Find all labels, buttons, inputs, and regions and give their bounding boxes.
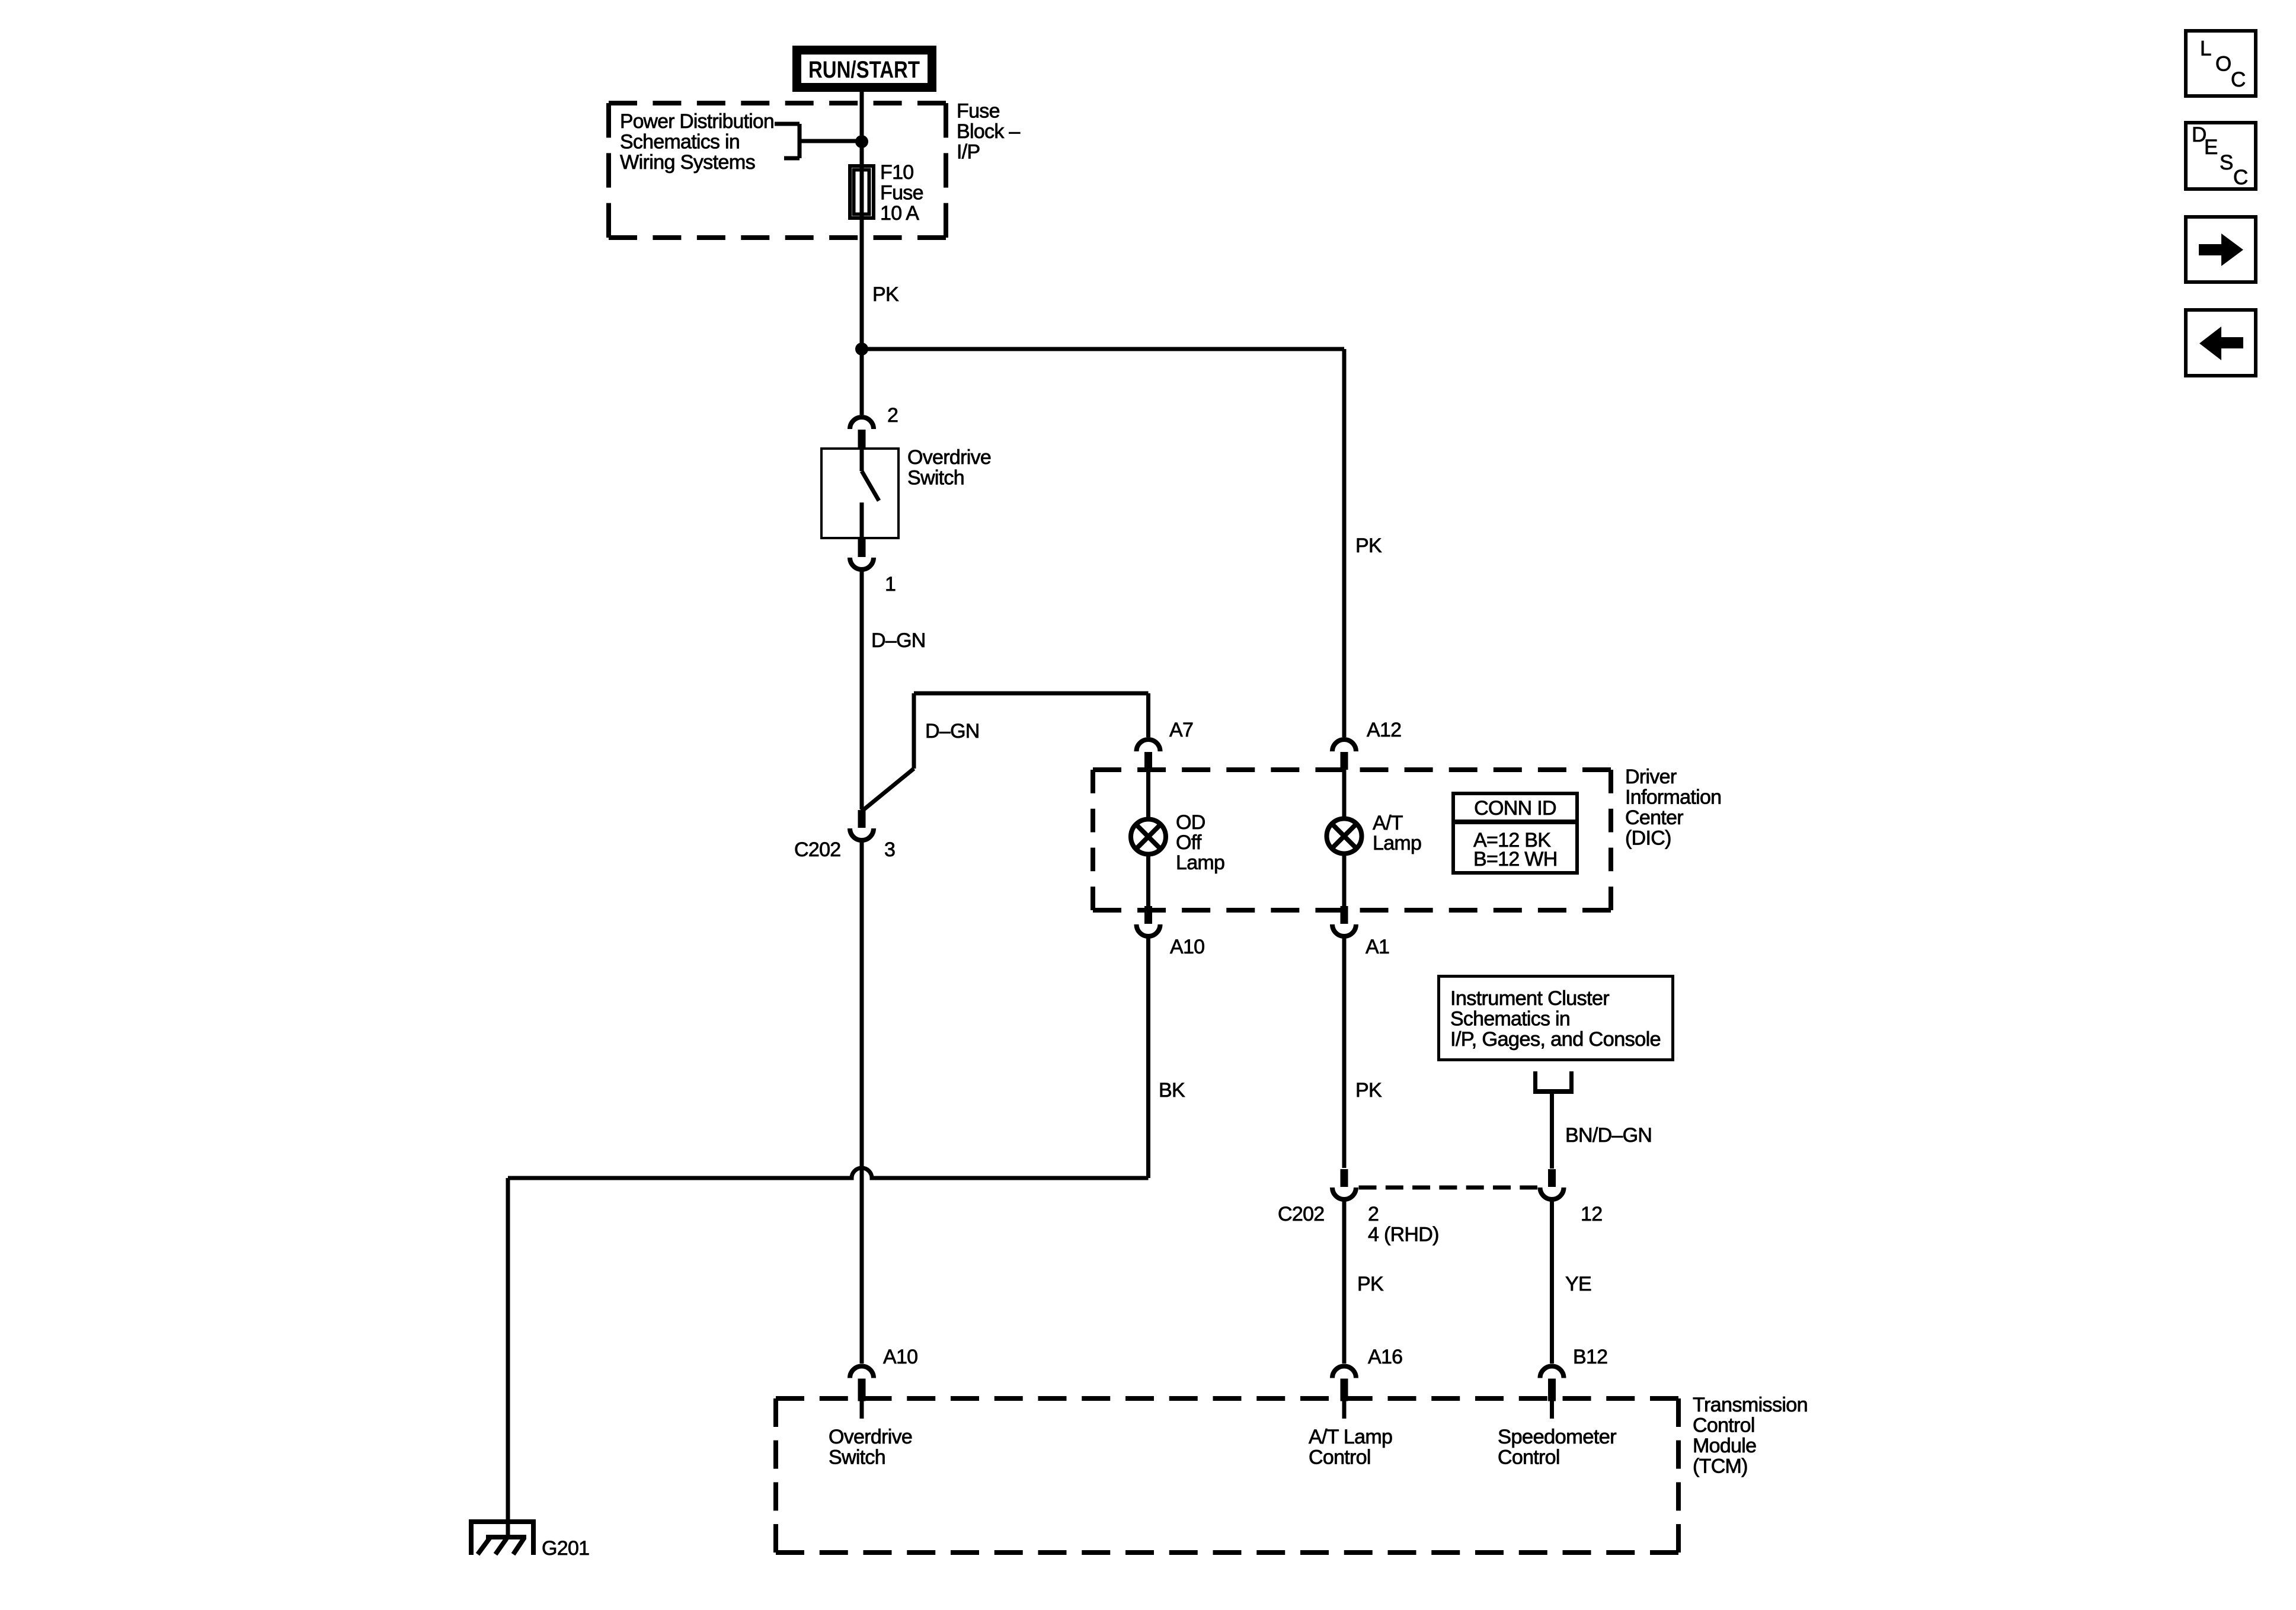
svg-text:A/T: A/T (1373, 812, 1403, 834)
svg-text:Overdrive: Overdrive (829, 1426, 912, 1448)
svg-text:G201: G201 (542, 1537, 589, 1560)
svg-text:A1: A1 (1366, 936, 1389, 958)
svg-text:Switch: Switch (907, 467, 964, 489)
svg-text:B=12 WH: B=12 WH (1473, 848, 1558, 870)
svg-text:Overdrive: Overdrive (907, 446, 991, 469)
svg-text:Lamp: Lamp (1373, 832, 1421, 854)
svg-text:OD: OD (1176, 811, 1205, 834)
svg-text:Driver: Driver (1625, 766, 1677, 788)
svg-text:C202: C202 (794, 838, 840, 861)
svg-text:Off: Off (1176, 831, 1202, 854)
svg-text:Block –: Block – (957, 120, 1020, 143)
svg-text:Schematics in: Schematics in (1450, 1008, 1570, 1030)
svg-text:1: 1 (885, 573, 896, 596)
svg-text:CONN ID: CONN ID (1474, 797, 1556, 820)
svg-text:PK: PK (1357, 1273, 1384, 1295)
svg-text:I/P: I/P (957, 141, 980, 164)
svg-text:Control: Control (1693, 1414, 1755, 1437)
svg-text:A/T Lamp: A/T Lamp (1309, 1426, 1392, 1448)
svg-text:3: 3 (884, 838, 895, 861)
svg-text:PK: PK (1355, 1079, 1382, 1102)
svg-text:C: C (2231, 68, 2246, 91)
svg-text:Lamp: Lamp (1176, 852, 1224, 874)
svg-text:C: C (2233, 166, 2248, 189)
svg-text:A10: A10 (1170, 936, 1204, 958)
svg-text:BK: BK (1159, 1079, 1185, 1102)
svg-text:D–GN: D–GN (871, 629, 926, 652)
svg-text:Switch: Switch (829, 1446, 885, 1469)
svg-text:Control: Control (1309, 1446, 1371, 1469)
svg-text:Control: Control (1498, 1446, 1560, 1469)
svg-text:L: L (2200, 37, 2211, 60)
svg-text:Transmission: Transmission (1693, 1394, 1808, 1416)
svg-text:10 A: 10 A (880, 202, 919, 225)
svg-text:I/P, Gages, and Console: I/P, Gages, and Console (1450, 1028, 1661, 1051)
svg-text:F10: F10 (880, 161, 914, 184)
svg-text:(TCM): (TCM) (1693, 1455, 1748, 1478)
svg-text:4 (RHD): 4 (RHD) (1368, 1224, 1439, 1246)
svg-text:RUN/START: RUN/START (808, 57, 920, 83)
svg-text:Power Distribution: Power Distribution (620, 110, 774, 133)
svg-text:Module: Module (1693, 1435, 1756, 1457)
svg-text:Information: Information (1625, 786, 1721, 809)
svg-text:Speedometer: Speedometer (1498, 1426, 1616, 1448)
svg-text:2: 2 (1368, 1203, 1379, 1225)
svg-text:C202: C202 (1278, 1203, 1324, 1225)
svg-text:Instrument Cluster: Instrument Cluster (1450, 987, 1609, 1010)
svg-text:Fuse: Fuse (880, 182, 923, 204)
svg-text:A10: A10 (883, 1346, 917, 1368)
svg-text:D–GN: D–GN (925, 720, 980, 742)
svg-text:A7: A7 (1169, 719, 1193, 741)
svg-text:PK: PK (872, 283, 899, 306)
svg-text:E: E (2204, 136, 2218, 159)
svg-text:Schematics in: Schematics in (620, 131, 740, 153)
svg-text:B12: B12 (1573, 1346, 1607, 1368)
svg-text:Fuse: Fuse (957, 100, 1000, 123)
svg-text:(DIC): (DIC) (1625, 827, 1671, 850)
svg-text:Wiring Systems: Wiring Systems (620, 151, 755, 174)
svg-text:2: 2 (887, 404, 898, 427)
svg-text:Center: Center (1625, 806, 1683, 829)
svg-text:YE: YE (1565, 1273, 1591, 1295)
svg-text:A16: A16 (1368, 1346, 1402, 1368)
svg-text:O: O (2215, 53, 2231, 76)
svg-text:12: 12 (1581, 1203, 1602, 1225)
svg-text:S: S (2220, 151, 2233, 174)
svg-text:A12: A12 (1367, 719, 1401, 741)
svg-text:BN/D–GN: BN/D–GN (1565, 1124, 1652, 1147)
svg-text:PK: PK (1355, 534, 1382, 557)
